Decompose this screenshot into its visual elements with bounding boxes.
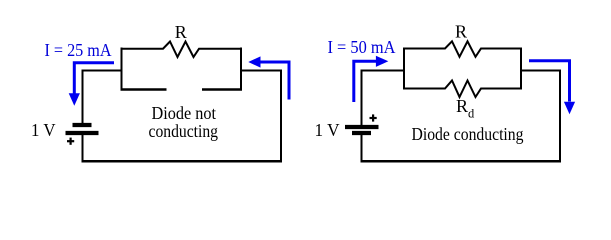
svg-text:R: R [175, 22, 187, 42]
svg-text:1 V: 1 V [315, 120, 340, 140]
svg-text:Rd: Rd [456, 96, 475, 121]
svg-text:conducting: conducting [149, 121, 219, 141]
svg-text:I = 25 mA: I = 25 mA [45, 40, 112, 60]
svg-text:1 V: 1 V [31, 120, 56, 140]
svg-text:Diode not: Diode not [152, 103, 217, 123]
svg-text:I = 50 mA: I = 50 mA [328, 37, 396, 57]
svg-text:R: R [455, 22, 467, 42]
svg-text:Diode conducting: Diode conducting [412, 124, 524, 144]
